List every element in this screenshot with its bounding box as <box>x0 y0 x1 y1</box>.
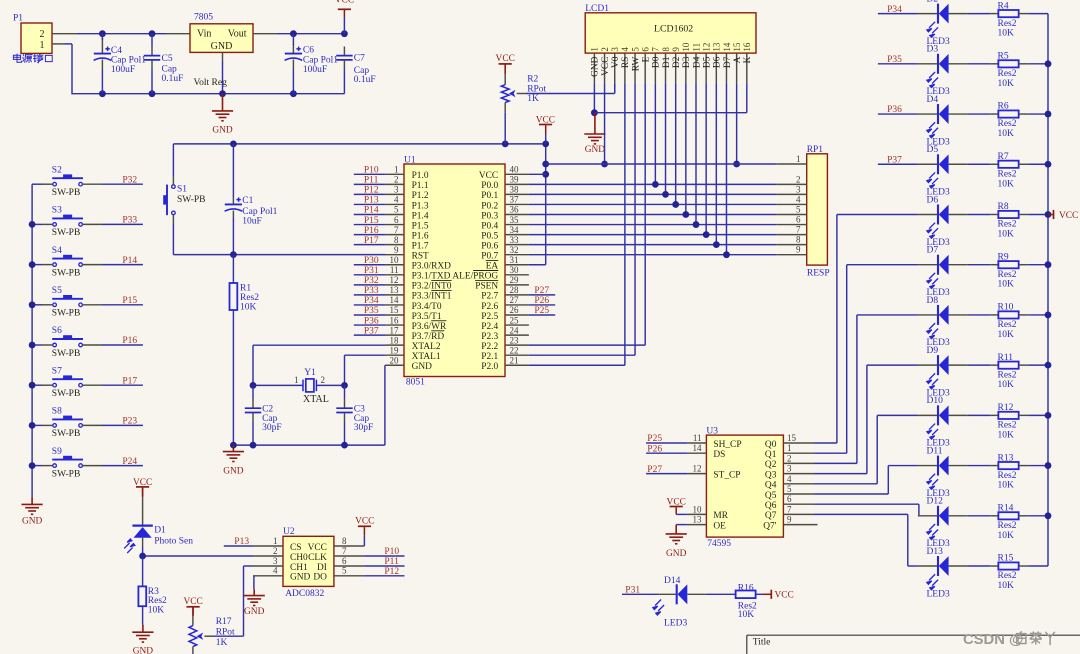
wire rail to S9 <box>32 465 42 467</box>
svg-text:P33: P33 <box>122 216 137 226</box>
svg-text:U2: U2 <box>283 527 295 537</box>
ic U1 pin 20 (GND) <box>386 364 404 366</box>
svg-text:P1.7: P1.7 <box>412 241 429 251</box>
svg-text:2: 2 <box>394 175 399 185</box>
lcd pin 9 (D2) <box>675 53 677 83</box>
svg-text:GND: GND <box>290 573 311 583</box>
resistor pack RP1 pin 1 <box>777 163 807 165</box>
LED D6 light arrows <box>927 223 938 239</box>
wire bottom rail <box>72 93 344 95</box>
LED D3 light arrows <box>927 72 938 88</box>
LED D7 (LED3) <box>918 264 937 266</box>
svg-text:ADC0832: ADC0832 <box>285 589 324 599</box>
ic U1 pin 11 (P3.1/TXD) <box>386 274 404 276</box>
svg-text:10K: 10K <box>998 531 1015 541</box>
wire net stub P10 <box>364 555 404 557</box>
ic U1 pin 2 (P1.1) <box>386 183 404 185</box>
svg-text:Res2: Res2 <box>240 293 259 303</box>
wire XTAL1 from U1 pin19 <box>345 354 386 356</box>
capacitor C4 (Cap Pol1 100uF) <box>101 38 103 54</box>
svg-text:P35: P35 <box>887 55 902 65</box>
capacitor C6 plates <box>285 47 303 61</box>
power VCC above U1 pin 40 <box>539 124 552 126</box>
svg-text:R2: R2 <box>527 75 538 85</box>
svg-text:30pF: 30pF <box>262 423 282 433</box>
svg-text:74595: 74595 <box>707 539 731 549</box>
wire LED D5 to resistor R7 <box>968 163 990 165</box>
svg-text:D4: D4 <box>927 95 939 105</box>
svg-text:R11: R11 <box>998 353 1014 363</box>
svg-text:VCC: VCC <box>775 591 794 601</box>
LED D8 light arrows <box>927 323 938 339</box>
svg-text:R7: R7 <box>998 152 1009 162</box>
wire resistor R11 to rail <box>1019 364 1029 366</box>
wire rail to S3 <box>32 223 42 225</box>
svg-text:D1: D1 <box>662 56 672 68</box>
capacitor C3 (Cap 30pF) <box>344 399 346 408</box>
wire net stub P32 <box>354 284 386 286</box>
svg-text:P15: P15 <box>122 296 137 306</box>
ic U1 pin 36 (P0.3) <box>505 214 529 216</box>
svg-text:P36: P36 <box>887 105 902 115</box>
svg-text:14: 14 <box>390 295 400 305</box>
svg-text:R9: R9 <box>998 252 1009 262</box>
svg-text:25: 25 <box>510 315 520 325</box>
svg-text:9: 9 <box>796 245 801 255</box>
power VCC at top of supply <box>338 8 351 10</box>
svg-text:P2.6: P2.6 <box>481 302 498 312</box>
svg-text:39: 39 <box>510 175 520 185</box>
wire net stub P37 <box>878 163 918 165</box>
svg-text:9: 9 <box>394 245 399 255</box>
resistor pack RP1 pin 2 <box>777 183 807 185</box>
svg-text:D0: D0 <box>652 56 662 68</box>
resistor R1 body <box>230 283 238 310</box>
svg-text:R16: R16 <box>738 584 754 594</box>
ic U1 pin 32 (P0.7) <box>505 254 529 256</box>
svg-text:2: 2 <box>321 375 326 385</box>
svg-text:SW-PB: SW-PB <box>52 188 81 198</box>
connector P1 label 电源接口 <box>13 54 52 63</box>
wire LED D13 to resistor R15 <box>968 565 990 567</box>
capacitor C6 (Cap Pol1 100uF) <box>292 44 294 54</box>
wire U3 Q1 to LED row D7 <box>815 452 847 454</box>
svg-text:P2.3: P2.3 <box>481 332 498 342</box>
wire net stub P36 <box>878 113 918 115</box>
svg-text:P3.3/INT1: P3.3/INT1 <box>412 292 452 302</box>
svg-text:22: 22 <box>510 345 519 355</box>
wire resistor R8 to rail <box>1019 213 1029 215</box>
svg-text:5: 5 <box>630 47 640 52</box>
ic U1 pin 35 (P0.4) <box>505 224 529 226</box>
junction LED rail <box>1045 261 1052 268</box>
lcd pin 12 (D5) <box>705 53 707 83</box>
svg-text:7: 7 <box>796 225 801 235</box>
LED D5 symbol <box>938 154 949 174</box>
capacitor C7 (Cap 0.1uF) <box>343 47 345 56</box>
ic U2 pin 1 (CS) <box>253 545 283 547</box>
svg-text:D11: D11 <box>927 446 943 456</box>
ic U1 pin 25 (P2.4) <box>505 324 529 326</box>
resistor R13 body <box>998 462 1018 469</box>
wire resistor R5 to rail <box>1019 63 1029 65</box>
svg-text:DO: DO <box>313 573 327 583</box>
svg-text:P31: P31 <box>625 586 640 596</box>
svg-text:3: 3 <box>273 556 278 566</box>
resistor R16 body <box>736 591 756 599</box>
svg-text:10K: 10K <box>998 430 1015 440</box>
svg-text:VCC: VCC <box>183 597 202 607</box>
wire VCC to MR pin <box>676 513 687 515</box>
svg-text:SW-PB: SW-PB <box>177 195 206 205</box>
ic U3 pin 2 (Q2) <box>783 462 814 464</box>
svg-text:10K: 10K <box>998 280 1015 290</box>
resistor pack RP1 pin 3 <box>777 193 807 195</box>
svg-text:10K: 10K <box>148 605 165 615</box>
svg-text:10uF: 10uF <box>242 217 262 227</box>
wire S3 to net P33 <box>82 223 102 225</box>
svg-text:Q6: Q6 <box>765 501 777 511</box>
wire 7805 GND pin down <box>222 52 224 61</box>
resistor pack RP1 pin 6 <box>777 224 807 226</box>
junction LED rail <box>1045 211 1052 218</box>
junction C5 bottom <box>149 90 156 97</box>
wire net stub P13 <box>354 203 386 205</box>
wire rail to S6 <box>32 344 42 346</box>
wire rail to S2 <box>32 183 42 185</box>
LED D2 symbol <box>938 4 949 24</box>
wire LCD D6 to P0.6 <box>715 83 717 244</box>
svg-text:33: 33 <box>510 235 520 245</box>
wire resistor R6 to rail <box>1019 113 1029 115</box>
svg-text:Q7: Q7 <box>765 511 777 521</box>
junction XTAL2/C2 <box>250 382 257 389</box>
ic U3 pin 5 (Q5) <box>783 493 814 495</box>
svg-text:10K: 10K <box>738 610 755 620</box>
svg-text:P0.0: P0.0 <box>481 181 498 191</box>
ic U3 pin 1 (Q1) <box>783 452 814 454</box>
resistor R10 body <box>998 311 1018 318</box>
svg-text:Vin: Vin <box>197 29 211 40</box>
svg-text:Res2: Res2 <box>998 421 1017 431</box>
svg-text:10K: 10K <box>998 79 1015 89</box>
svg-text:P1: P1 <box>13 14 23 24</box>
wire LED VCC rail (right) <box>1047 14 1049 566</box>
svg-text:RPot: RPot <box>216 628 235 638</box>
wire switch common rail <box>31 184 33 497</box>
ic U1 pin 28 (P2.7) <box>505 294 529 296</box>
ic U1 pin 14 (P3.4/T0) <box>386 304 404 306</box>
svg-text:P14: P14 <box>122 256 137 266</box>
svg-text:3: 3 <box>796 184 801 194</box>
power VCC above R17 <box>187 606 200 608</box>
LED D6 symbol <box>938 204 949 224</box>
svg-text:10K: 10K <box>998 29 1015 39</box>
svg-text:RS: RS <box>621 57 631 68</box>
svg-text:P2.2: P2.2 <box>481 342 498 352</box>
svg-text:P34: P34 <box>887 5 902 15</box>
svg-text:P36: P36 <box>364 316 379 326</box>
wire P1 pin1 down to bottom rail <box>52 43 64 45</box>
svg-text:VCC: VCC <box>496 54 515 64</box>
svg-text:5: 5 <box>796 205 801 215</box>
svg-text:8051: 8051 <box>406 378 425 388</box>
wire S1 bottom to RST rail <box>172 215 174 224</box>
svg-text:OE: OE <box>713 521 726 531</box>
svg-text:GND: GND <box>591 56 601 77</box>
wire LCD E (pin6) to P2.2 <box>644 83 646 345</box>
capacitor C7 plates <box>336 56 352 60</box>
svg-text:P25: P25 <box>647 434 662 444</box>
wire net stub P34 <box>878 13 918 15</box>
svg-text:13: 13 <box>390 285 400 295</box>
wire net stub P34 <box>354 304 386 306</box>
svg-text:D6: D6 <box>927 195 939 205</box>
wire LCD D1 to P0.1 <box>665 83 667 194</box>
svg-text:S8: S8 <box>52 407 62 417</box>
resistor R3 (Res2 10K) <box>142 556 144 586</box>
svg-text:12: 12 <box>701 43 711 52</box>
LED D14 (LED3) <box>658 593 676 595</box>
svg-text:R4: R4 <box>998 1 1009 11</box>
wire resistor R9 to rail <box>1019 264 1029 266</box>
ic U2 pin 5 (DO) <box>334 575 365 577</box>
svg-text:Photo Sen: Photo Sen <box>154 537 193 547</box>
junction LED rail <box>1045 111 1052 118</box>
svg-text:16: 16 <box>390 315 400 325</box>
svg-text:1K: 1K <box>527 94 539 104</box>
junction XTAL1/C3 <box>341 382 348 389</box>
wire crystal row right <box>316 384 344 386</box>
wire net stub P13 to U2 CS <box>224 545 253 547</box>
svg-text:9: 9 <box>671 47 681 52</box>
ic U1 pin 16 (P3.6/WR) <box>386 324 404 326</box>
svg-text:4: 4 <box>796 194 801 204</box>
wire LED D2 to resistor R4 <box>968 13 990 15</box>
svg-text:14: 14 <box>722 42 732 52</box>
ic U1 pin 18 (XTAL2) <box>386 344 404 346</box>
svg-text:P37: P37 <box>887 155 902 165</box>
ic U1 pin 6 (P1.5) <box>386 224 404 226</box>
lcd pin 5 (RW) <box>634 53 636 83</box>
svg-text:P27: P27 <box>647 465 662 475</box>
svg-text:GND: GND <box>585 145 606 155</box>
power VCC above U2 pin 8 <box>358 525 371 527</box>
svg-text:LED3: LED3 <box>927 589 950 599</box>
LED D5 light arrows <box>927 172 938 188</box>
switch S1 SW-PB (vertical) <box>163 185 175 216</box>
svg-text:A: A <box>733 56 743 63</box>
svg-text:40: 40 <box>510 165 520 175</box>
wire resistor R12 to rail <box>1019 414 1029 416</box>
resistor pack RP1 pin 7 <box>777 234 807 236</box>
svg-text:R5: R5 <box>998 52 1009 62</box>
svg-text:R12: R12 <box>998 403 1014 413</box>
ground below crystal rail <box>223 445 244 461</box>
svg-text:8: 8 <box>661 47 671 52</box>
svg-text:VCC: VCC <box>308 543 327 553</box>
svg-text:11: 11 <box>693 433 702 443</box>
wire net stub P26 <box>646 452 687 454</box>
junction LED rail <box>1045 60 1052 67</box>
LED D2 light arrows <box>927 22 938 38</box>
svg-text:RESP: RESP <box>807 268 830 278</box>
junction D6/P0.6 <box>713 241 720 248</box>
svg-text:11: 11 <box>691 43 701 52</box>
svg-text:RPot: RPot <box>527 84 546 94</box>
svg-text:C6: C6 <box>303 46 314 56</box>
svg-text:19: 19 <box>390 345 400 355</box>
lcd pin 7 (D0) <box>654 53 656 83</box>
wire VCC stem to rail <box>343 10 345 17</box>
svg-text:GND: GND <box>244 607 265 617</box>
crystal Y1 XTAL <box>303 379 316 392</box>
LED D11 light arrows <box>927 474 938 490</box>
svg-text:VCC: VCC <box>667 497 686 507</box>
junction LCD VCC on RP1 rail <box>601 161 608 168</box>
svg-text:P25: P25 <box>534 306 549 316</box>
capacitor C5 plates <box>144 56 160 60</box>
ic U2 pin 2 (CH0) <box>253 555 283 557</box>
LED D12 (LED3) <box>918 515 937 517</box>
ic U2 pin 8 (VCC) <box>334 545 365 547</box>
wire resistor R10 to rail <box>1019 314 1029 316</box>
svg-text:V0: V0 <box>611 56 621 68</box>
svg-text:4: 4 <box>787 474 792 484</box>
junction RP1 common rail <box>542 161 549 168</box>
svg-text:10: 10 <box>390 255 400 265</box>
connector P1 <box>21 23 52 53</box>
svg-text:D6: D6 <box>713 56 723 68</box>
svg-text:P1.0: P1.0 <box>412 171 429 181</box>
LED D12 light arrows <box>927 524 938 540</box>
svg-text:S9: S9 <box>52 447 62 457</box>
wire resistor R13 to rail <box>1019 465 1029 467</box>
svg-text:P32: P32 <box>122 175 137 185</box>
junction D1/R3/CH0 <box>139 553 146 560</box>
junction LED rail <box>1045 161 1052 168</box>
svg-text:20: 20 <box>390 355 400 365</box>
wire LCD RW (pin5) to P2.1 <box>634 83 636 355</box>
junction D7/P0.7 <box>723 251 730 258</box>
svg-text:5: 5 <box>342 566 347 576</box>
ic U3 pin 7 (Q7) <box>783 513 814 515</box>
svg-text:P13: P13 <box>234 537 249 547</box>
svg-text:D2: D2 <box>927 0 939 5</box>
wire OE to GND <box>676 524 687 526</box>
LED D9 (LED3) <box>918 364 937 366</box>
potentiometer wiper arrow <box>509 90 516 97</box>
junction C7/VCC <box>341 30 348 37</box>
svg-text:S6: S6 <box>52 326 62 336</box>
wire net stub P35 <box>878 63 918 65</box>
wire LCD D3 to P0.3 <box>685 83 687 214</box>
svg-text:XTAL1: XTAL1 <box>412 352 441 362</box>
wire net stub P35 <box>354 314 386 316</box>
svg-text:ST_CP: ST_CP <box>713 470 740 480</box>
svg-text:17: 17 <box>390 325 400 335</box>
junction C5 top <box>149 30 156 37</box>
LED D7 symbol <box>938 255 949 275</box>
svg-text:D1: D1 <box>154 525 166 535</box>
svg-text:6: 6 <box>641 47 651 52</box>
svg-text:Res2: Res2 <box>998 521 1017 531</box>
ic U3 pin 15 (Q0) <box>783 442 814 444</box>
lcd LCD1602 box <box>585 13 756 53</box>
svg-text:1: 1 <box>394 165 399 175</box>
svg-text:R6: R6 <box>998 102 1009 112</box>
ic U1 pin 37 (P0.2) <box>505 203 529 205</box>
ic U1 pin 24 (P2.3) <box>505 334 529 336</box>
svg-text:10K: 10K <box>998 229 1015 239</box>
ground at U2 <box>244 589 265 605</box>
svg-text:Res2: Res2 <box>998 19 1017 29</box>
junction LED rail <box>1045 462 1052 469</box>
svg-text:R14: R14 <box>998 504 1014 514</box>
resistor R12 body <box>998 412 1018 419</box>
ic U1 pin 12 (P3.2/INT0) <box>386 284 404 286</box>
photo sensor arrows at D1 <box>124 539 135 553</box>
LED D5 (LED3) <box>918 163 937 165</box>
resistor pack RP1 pin 9 <box>777 254 807 256</box>
ic U3 pin 3 (Q3) <box>783 473 814 475</box>
resistor R14 body <box>998 512 1018 519</box>
svg-text:4: 4 <box>394 195 399 205</box>
ic U1 pin 34 (P0.5) <box>505 234 529 236</box>
svg-text:Q2: Q2 <box>765 460 777 470</box>
wire net stub P27 <box>646 473 687 475</box>
svg-text:Res2: Res2 <box>998 471 1017 481</box>
power VCC above D1 <box>136 486 149 488</box>
svg-text:8: 8 <box>342 536 347 546</box>
LED D6 (LED3) <box>918 213 937 215</box>
svg-text:24: 24 <box>510 325 520 335</box>
svg-text:10K: 10K <box>998 330 1015 340</box>
svg-text:D5: D5 <box>702 56 712 68</box>
svg-text:P3.4/T0: P3.4/T0 <box>412 302 442 312</box>
svg-text:P0.5: P0.5 <box>481 231 498 241</box>
LED D13 symbol <box>938 556 949 576</box>
wire U3 Q0 to LED row D6 <box>815 442 837 444</box>
svg-text:D10: D10 <box>927 396 944 406</box>
svg-text:Q1: Q1 <box>765 450 777 460</box>
svg-text:D7: D7 <box>723 56 733 68</box>
svg-text:DS: DS <box>713 450 725 460</box>
wire net stub P11 <box>354 183 386 185</box>
LED D11 (LED3) <box>918 465 937 467</box>
svg-text:VCC: VCC <box>133 478 152 488</box>
svg-text:P24: P24 <box>122 457 137 467</box>
svg-text:Q3: Q3 <box>765 470 777 480</box>
svg-text:3: 3 <box>610 47 620 52</box>
svg-text:R15: R15 <box>998 554 1014 564</box>
svg-text:1: 1 <box>294 375 299 385</box>
svg-text:7: 7 <box>394 225 399 235</box>
resistor R15 body <box>998 562 1018 569</box>
svg-text:S5: S5 <box>52 286 62 296</box>
wire net stub P31 <box>622 593 658 595</box>
svg-text:Res2: Res2 <box>998 270 1017 280</box>
ic U2 pin 7 (CLK) <box>334 555 365 557</box>
LED D10 symbol <box>938 405 949 425</box>
junction switch rail <box>29 261 36 268</box>
wire LCD D4 to P0.4 <box>695 83 697 224</box>
svg-text:VCC: VCC <box>536 116 555 126</box>
wire LCD D0 to P0.0 <box>654 83 656 184</box>
junction U1 VCC pin40 <box>542 171 549 178</box>
ic U1 pin 19 (XTAL1) <box>386 354 404 356</box>
svg-text:SW-PB: SW-PB <box>52 429 81 439</box>
